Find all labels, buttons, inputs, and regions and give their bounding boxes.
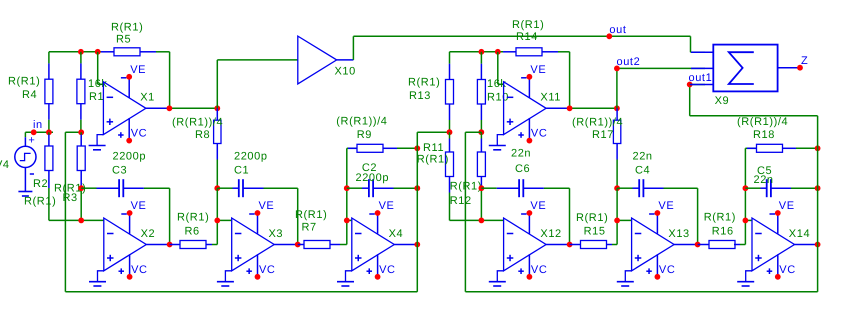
resistor R6 <box>170 241 218 249</box>
svg-text:R8: R8 <box>195 129 210 141</box>
node X3 inv junction <box>214 218 220 224</box>
op-amp X12 <box>504 200 570 279</box>
node R10-R12 junction <box>478 129 484 135</box>
node X3 output <box>295 242 301 248</box>
ground X14 <box>746 271 752 282</box>
wire X1 output <box>169 107 217 109</box>
op-amp X3 <box>232 200 298 279</box>
svg-text:X1: X1 <box>140 92 155 104</box>
svg-text:R(R1): R(R1) <box>24 196 56 208</box>
svg-text:X2: X2 <box>141 228 156 240</box>
wire bus right <box>465 291 817 293</box>
wire to sum input 1 <box>691 36 706 52</box>
svg-text:R1: R1 <box>89 91 104 103</box>
op-amp X4 <box>352 200 418 279</box>
svg-text:R11: R11 <box>423 142 444 154</box>
wire C3 to X2 output <box>169 188 171 244</box>
ground X11 <box>497 135 503 146</box>
resistor R2 <box>45 146 53 171</box>
node in label dot <box>31 129 37 135</box>
resistor R9 <box>348 144 417 152</box>
resistor R1 <box>77 79 85 104</box>
wire out1 route <box>690 85 818 116</box>
svg-text:R15: R15 <box>584 226 606 238</box>
wire R17 col to X13 inv <box>617 188 632 244</box>
node X11 output <box>567 105 573 111</box>
resistor R5 <box>114 48 140 56</box>
svg-text:VE: VE <box>259 200 275 212</box>
wire R10 leads <box>480 52 482 132</box>
svg-text:out2: out2 <box>617 56 641 68</box>
node R13-R11 junction <box>447 129 453 135</box>
node X2 inv junction <box>78 218 84 224</box>
resistor R18 <box>747 144 818 152</box>
wire to buffer X10 <box>217 60 297 108</box>
wire X11 output <box>570 107 617 109</box>
svg-text:R(R1): R(R1) <box>295 209 327 221</box>
resistor R10 <box>477 80 485 105</box>
op-amp X1 <box>103 64 169 144</box>
node R9 right junction <box>414 145 420 151</box>
node out2 label dot <box>614 66 620 72</box>
wire R2 leads <box>49 132 104 220</box>
node out label dot <box>606 33 612 39</box>
svg-text:VC: VC <box>131 264 147 276</box>
svg-text:R3: R3 <box>63 192 78 204</box>
svg-text:22n: 22n <box>754 174 774 186</box>
node X11 inv riser <box>495 49 501 55</box>
node out1 label dot <box>687 82 693 88</box>
ground X12 <box>497 271 503 282</box>
svg-text:C4: C4 <box>635 165 650 177</box>
ground X4 <box>346 271 352 282</box>
node C5 right junction <box>815 185 821 191</box>
svg-text:VE: VE <box>779 200 795 212</box>
svg-text:X3: X3 <box>269 228 284 240</box>
node R8 top <box>214 105 220 111</box>
ground V4 <box>18 192 32 197</box>
wire X4 out to right block input <box>417 131 449 133</box>
node X4 output <box>414 242 420 248</box>
svg-text:R7: R7 <box>302 222 317 234</box>
svg-text:R(R1): R(R1) <box>576 212 608 224</box>
svg-text:+: + <box>28 135 35 147</box>
svg-text:VC: VC <box>659 264 675 276</box>
capacitor C6 <box>481 179 569 197</box>
svg-text:X12: X12 <box>540 228 561 240</box>
buffer X10 <box>298 36 354 84</box>
svg-text:VE: VE <box>530 200 546 212</box>
svg-text:(R(R1))/4: (R(R1))/4 <box>336 115 387 127</box>
node X13 inv junction <box>614 218 620 224</box>
capacitor C4 <box>617 179 698 197</box>
node C2 right junction <box>414 185 420 191</box>
wire C4 to X13 output <box>697 188 699 244</box>
svg-text:R(R1): R(R1) <box>417 154 449 166</box>
svg-text:C3: C3 <box>112 165 127 177</box>
node R17-C4 junction <box>614 185 620 191</box>
resistor R15 <box>570 241 618 249</box>
wire R12 leads <box>480 132 482 220</box>
ground X13 <box>625 271 631 282</box>
wire C6 to X12 output <box>569 188 571 244</box>
node C5 left junction <box>743 185 749 191</box>
resistor R11 <box>446 152 454 177</box>
svg-text:C6: C6 <box>515 163 530 175</box>
node X2 output <box>167 242 173 248</box>
op-amp X13 <box>632 200 698 279</box>
wire R3 leads <box>80 132 82 220</box>
svg-text:R14: R14 <box>516 31 538 43</box>
node junction R1 top <box>78 49 84 55</box>
wire X1 inverting input riser <box>98 52 104 85</box>
svg-text:VE: VE <box>658 200 674 212</box>
svg-text:R(R1): R(R1) <box>450 181 482 193</box>
ground X3 <box>225 271 231 282</box>
wire R13 leads <box>449 52 451 132</box>
svg-text:R(R1): R(R1) <box>704 211 736 223</box>
capacitor C1 <box>217 179 297 197</box>
wire R11 leads <box>450 132 504 220</box>
wire X4 output column <box>416 132 418 292</box>
node R10 top <box>479 49 485 55</box>
svg-text:(R(R1))/4: (R(R1))/4 <box>172 117 223 129</box>
node C2 left junction <box>344 185 350 191</box>
wire in node <box>25 131 53 133</box>
svg-text:R4: R4 <box>22 89 37 101</box>
wire bus left <box>65 291 417 293</box>
svg-text:Z: Z <box>801 55 808 67</box>
svg-text:out1: out1 <box>689 72 713 84</box>
svg-text:R10: R10 <box>487 92 509 104</box>
node X14 output <box>815 242 821 248</box>
resistor R14 <box>516 48 542 56</box>
capacitor C5 <box>745 179 817 197</box>
svg-text:in: in <box>33 119 43 131</box>
wire R4 leads <box>48 52 50 133</box>
svg-text:VC: VC <box>531 128 547 140</box>
node Z <box>797 65 803 71</box>
svg-text:2200p: 2200p <box>234 150 268 162</box>
svg-text:X14: X14 <box>789 228 810 240</box>
wire R8 col to X3 inv <box>217 188 231 244</box>
node R4-R2 junction <box>46 129 52 135</box>
resistor R16 <box>698 241 746 249</box>
node R12-C6 junction <box>479 185 485 191</box>
resistor R7 <box>298 241 347 249</box>
svg-text:R(R1): R(R1) <box>8 76 40 88</box>
svg-text:R2: R2 <box>33 178 48 190</box>
node R17 top <box>614 105 620 111</box>
wire top summing node X11 <box>450 52 570 109</box>
svg-text:16k: 16k <box>88 78 108 90</box>
label V4 minus <box>30 173 34 175</box>
svg-text:VC: VC <box>131 128 147 140</box>
svg-text:R(R1): R(R1) <box>512 19 544 31</box>
capacitor C3 <box>81 179 169 197</box>
svg-text:X11: X11 <box>540 92 561 104</box>
svg-text:R13: R13 <box>409 90 431 102</box>
wire X10 output <box>353 36 690 60</box>
svg-text:R18: R18 <box>753 129 775 141</box>
wire C1 to X3 output <box>297 188 299 244</box>
node X1 output <box>167 105 173 111</box>
op-amp X11 <box>504 64 570 144</box>
svg-text:2200p: 2200p <box>113 150 147 162</box>
node junction X1 inv riser <box>95 49 101 55</box>
svg-text:X13: X13 <box>668 228 689 240</box>
op-amp X2 <box>104 200 170 279</box>
ground X2 <box>98 271 104 282</box>
wire top summing node X1 <box>49 52 170 109</box>
node X13 output <box>695 242 701 248</box>
node X12 inv junction <box>479 218 485 224</box>
svg-text:X9: X9 <box>715 95 730 107</box>
resistor R8 <box>214 108 221 188</box>
resistor R4 <box>45 79 53 104</box>
svg-text:R16: R16 <box>712 226 734 238</box>
source V4 <box>15 132 36 191</box>
node X14 inv junction <box>743 218 749 224</box>
svg-text:VC: VC <box>259 264 275 276</box>
resistor R3 <box>77 146 85 171</box>
svg-text:X10: X10 <box>335 65 356 77</box>
resistor R13 <box>446 80 454 105</box>
wire to out2 <box>617 68 705 108</box>
wire bus branch right <box>465 132 481 292</box>
wire X4 inv column <box>347 148 357 244</box>
node R18 right junction <box>815 145 821 151</box>
svg-text:C1: C1 <box>234 165 249 177</box>
svg-text:R9: R9 <box>357 129 372 141</box>
wire bus branch <box>65 132 81 291</box>
svg-text:VC: VC <box>531 264 547 276</box>
node X4 inv junction <box>344 218 350 224</box>
summing block X9 <box>690 45 800 92</box>
wire X11 inverting riser <box>498 52 504 85</box>
svg-text:R5: R5 <box>116 34 131 46</box>
svg-text:VE: VE <box>130 64 146 76</box>
svg-text:2200p: 2200p <box>356 172 390 184</box>
svg-text:VE: VE <box>379 200 395 212</box>
op-amp X14 <box>752 200 818 279</box>
svg-text:R(R1): R(R1) <box>111 21 143 33</box>
svg-text:R17: R17 <box>592 129 614 141</box>
wire X14 inv column <box>745 148 756 244</box>
node R8-C1 junction <box>214 185 220 191</box>
resistor R12 <box>477 152 485 177</box>
svg-text:(R(R1))/4: (R(R1))/4 <box>572 117 623 129</box>
svg-text:VC: VC <box>779 264 795 276</box>
svg-text:VE: VE <box>131 200 147 212</box>
wire out1 to sum input 3 <box>690 84 705 86</box>
node R1-R3 junction <box>78 129 84 135</box>
svg-text:R12: R12 <box>450 195 472 207</box>
svg-text:R(R1): R(R1) <box>408 77 440 89</box>
svg-text:R(R1): R(R1) <box>177 211 209 223</box>
svg-text:22n: 22n <box>633 150 653 162</box>
svg-text:VE: VE <box>530 64 546 76</box>
wire R1 leads <box>80 52 82 133</box>
node R3-C3 junction <box>78 185 84 191</box>
svg-text:(R(R1))/4: (R(R1))/4 <box>737 116 788 128</box>
svg-text:22n: 22n <box>511 148 531 160</box>
node X12 output <box>567 242 573 248</box>
resistor R17 <box>613 108 620 188</box>
ground X1 <box>97 135 103 146</box>
wire X14 output column <box>817 116 819 292</box>
svg-text:VC: VC <box>379 264 395 276</box>
capacitor C2 <box>347 179 418 197</box>
svg-text:out: out <box>609 24 626 36</box>
svg-text:R6: R6 <box>185 226 200 238</box>
svg-text:X4: X4 <box>389 228 404 240</box>
svg-text:V4: V4 <box>0 159 10 171</box>
